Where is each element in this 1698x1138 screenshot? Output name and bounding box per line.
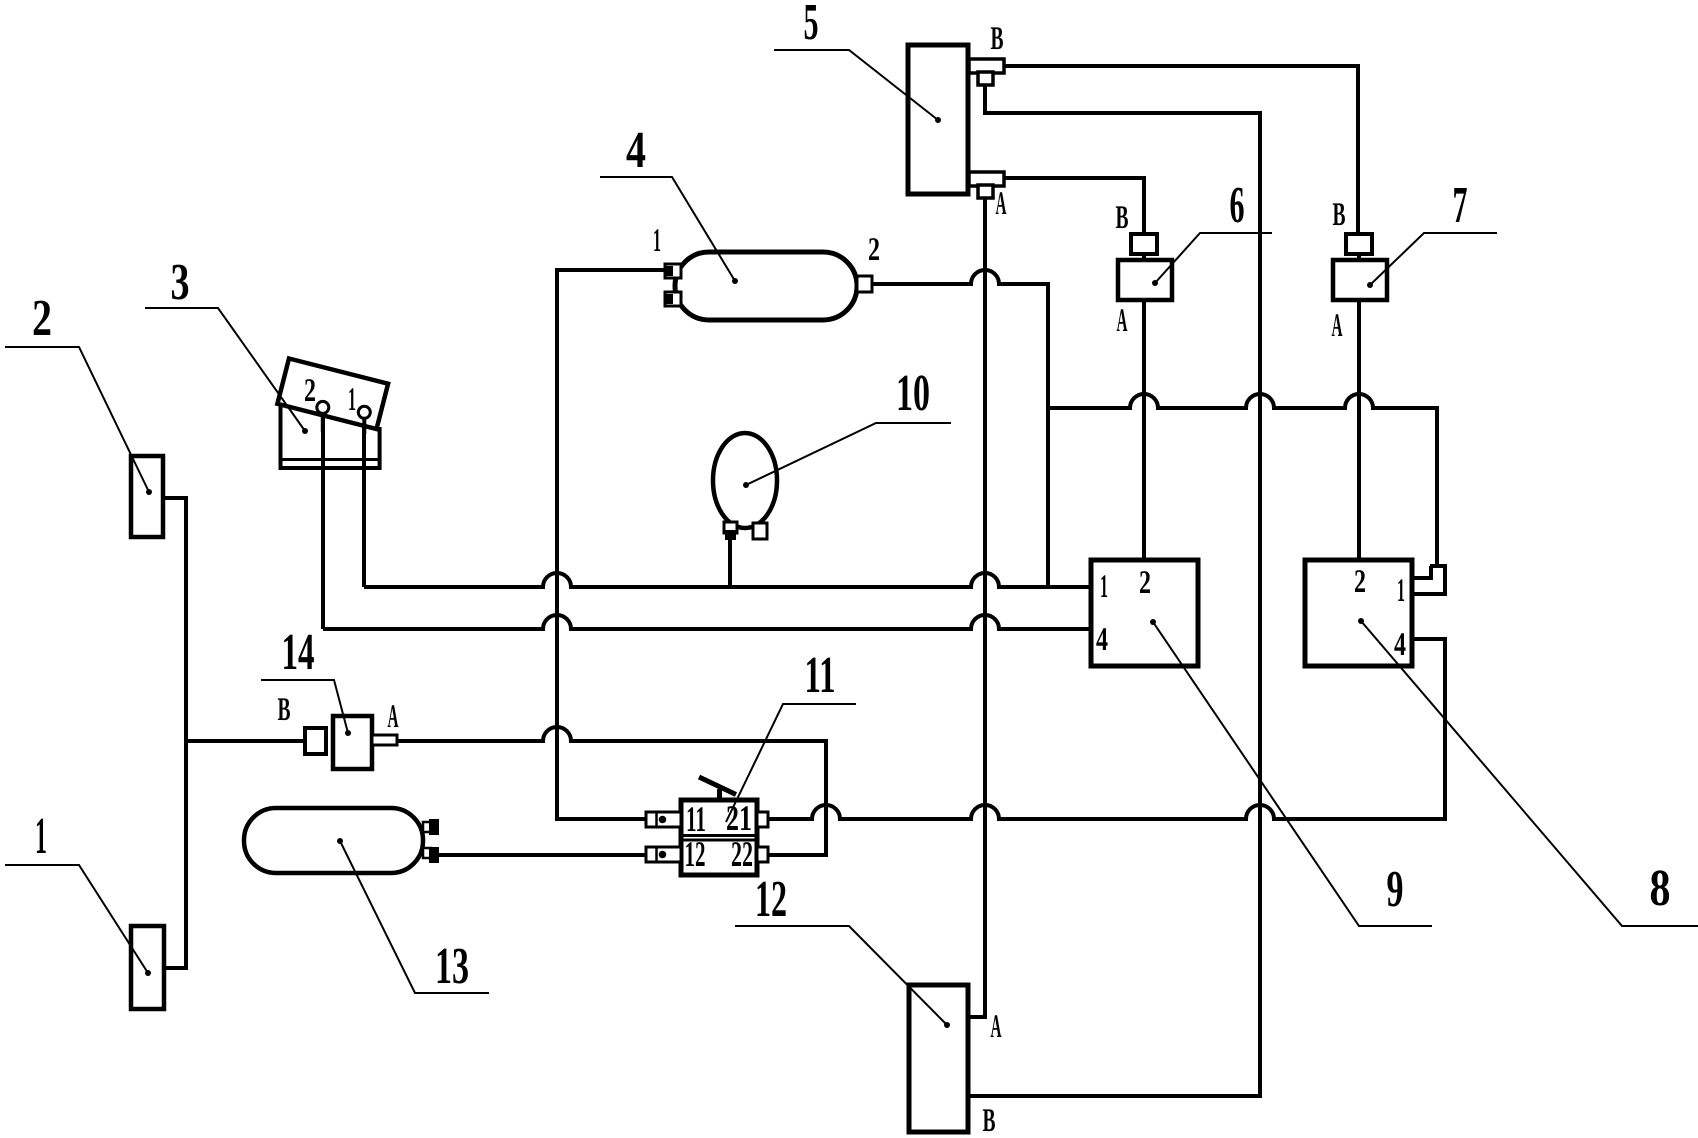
svg-text:12: 12 [755,871,787,928]
label 10 with underline and leader [743,365,951,488]
label 2 with underline and leader [5,290,152,495]
port lower left of capsule4 [665,292,681,306]
component 5 air dryer [908,45,968,194]
label 11 with underline and leader [726,647,856,822]
svg-text:A: A [1332,308,1343,344]
box8 port1 hook connector [1412,566,1445,594]
wire valve6 A down to box9 top [1142,254,1146,560]
svg-text:10: 10 [896,365,930,422]
component 8 brake chamber box [1305,560,1412,666]
svg-text:4: 4 [1096,622,1108,658]
svg-text:1: 1 [348,382,356,418]
port 1 upper left of capsule4 [665,264,681,278]
svg-text:B: B [983,1103,996,1138]
bus y587 from elem3 port1 drop with humps over x557 x985 to box9 port1 [364,419,1091,587]
wire branch y408 right with humps over x1144 x1260 x1359, down x1437 to box8 port1 hook [1048,394,1437,566]
svg-text:2: 2 [868,232,880,268]
port 12 coupling [646,847,681,862]
label 9 with underline and leader [1150,619,1432,926]
svg-text:3: 3 [171,254,190,311]
svg-text:11: 11 [805,647,836,704]
wire valve7 A down to box8 top [1357,254,1361,560]
wire box8 port4 right, down x1445, left along y819 with humps over x1260 x985 x826 to port21 [768,639,1445,819]
component 14 check valve [305,716,397,769]
svg-text:2: 2 [1139,565,1151,601]
svg-text:1: 1 [1100,569,1108,605]
port 2 right of capsule4 [857,276,872,292]
svg-text:1: 1 [653,223,661,259]
label 8 with underline and leader [1358,618,1698,926]
svg-text:8: 8 [1650,860,1671,917]
component 4 air reservoir capsule [665,252,872,320]
port 22 stub [757,847,768,862]
svg-text:22: 22 [731,834,753,874]
svg-text:21: 21 [726,798,752,838]
bus y629 from elem3 port2 drop with humps over x557 x985 to box9 port4 [323,414,1091,629]
svg-text:A: A [1117,303,1128,339]
svg-text:B: B [991,21,1004,57]
label 6 with underline and leader [1152,177,1272,286]
svg-text:A: A [996,186,1007,222]
wire top B: box5 top tee to valve7 B [1004,66,1358,236]
svg-text:13: 13 [435,938,469,995]
svg-text:5: 5 [804,0,819,51]
label 3 with underline and leader [145,254,308,434]
wire capsule4 port1 left, down x557, right into port11 of block [557,270,665,819]
svg-text:4: 4 [626,122,646,179]
label 4 with underline and leader [600,122,738,284]
svg-text:B: B [278,692,291,728]
wire tank10 foot down to bus y587 [728,540,732,587]
port 21 stub [757,812,768,827]
tee fitting A on box5 [969,172,1004,198]
label 1 with underline and leader [5,808,151,976]
port circle 1 of elem3 [358,406,370,418]
component 1 sensor block [131,926,164,1009]
wire second from box5 top tee stem down, right at y113, long vertical x1260 down to elem12 B wire y1096 [968,84,1260,1096]
component 6 solenoid valve [1118,234,1172,300]
svg-text:A: A [388,699,399,735]
label 14 with underline and leader [261,624,351,736]
component 10 small air tank [713,433,777,540]
wire lower tee A to valve6 B [1004,178,1144,236]
svg-text:9: 9 [1387,861,1404,918]
component 13 air reservoir capsule [244,808,439,873]
component 11 hand brake valve block (rows 11/21 and 12/22) [646,777,768,875]
svg-text:2: 2 [304,373,316,409]
svg-text:7: 7 [1453,177,1468,234]
component 2 sensor block [131,456,163,537]
wire valve14 A right with hump over x557, down x826 to port22 [397,727,826,855]
component 9 brake chamber box [1091,560,1198,666]
svg-text:2: 2 [32,290,52,347]
svg-text:2: 2 [1354,564,1366,600]
port 11 coupling [646,812,681,827]
label 5 with underline and leader [774,0,941,123]
svg-text:12: 12 [685,834,706,874]
label 13 with underline and leader [337,838,489,995]
svg-text:6: 6 [1230,177,1245,234]
svg-text:A: A [991,1009,1002,1045]
wire trunk x985 from box5 A stem down to elem12 A step [968,197,985,1017]
component 7 solenoid valve [1333,234,1387,300]
lever on top of block [699,777,736,801]
wire capsule4 port2 right with hump over x985, down x1048 to bus y587 [872,270,1048,587]
wire capsule13 lower port to port12 of block [437,853,646,857]
component 12 spring brake chamber [909,985,968,1132]
svg-text:4: 4 [1394,627,1406,663]
component 3 brake pedal unit [277,359,388,469]
svg-text:1: 1 [35,808,47,865]
port circle 2 of elem3 [317,401,329,413]
label 7 with underline and leader [1367,177,1497,288]
label 12 with underline and leader [735,871,950,1028]
wire left trunk x186: elem2 down to elem1, branch to valve14 B [163,498,305,968]
svg-text:B: B [1333,197,1346,233]
svg-text:14: 14 [282,624,315,681]
tee fitting B on box5 [969,59,1004,85]
svg-text:1: 1 [1397,573,1405,609]
svg-text:11: 11 [686,799,706,839]
svg-text:B: B [1116,200,1129,236]
